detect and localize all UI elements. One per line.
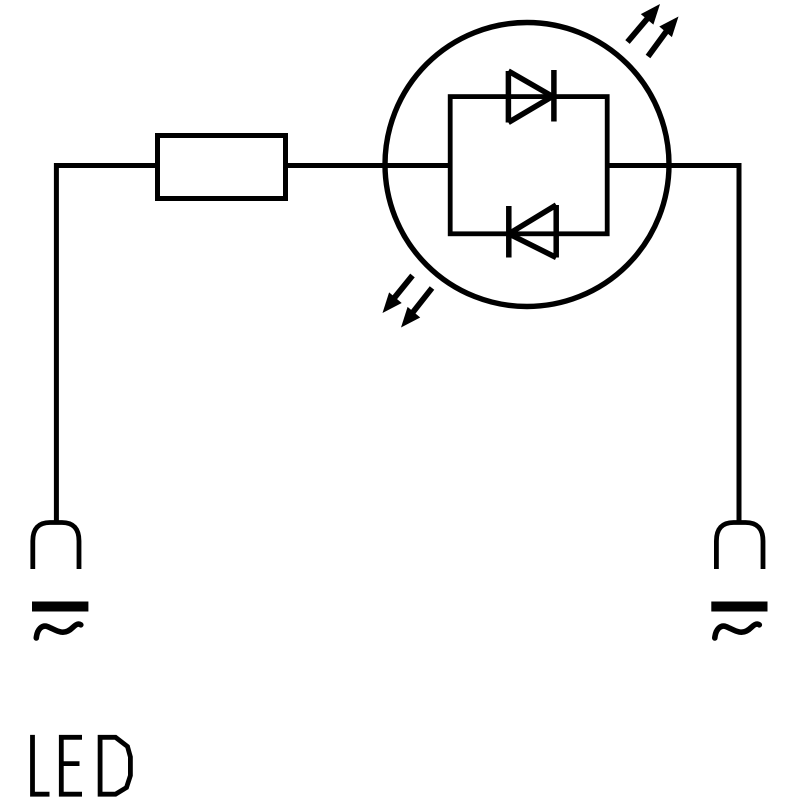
diode D1 cathode bar bbox=[551, 70, 557, 122]
diode pair box bbox=[450, 97, 607, 234]
light arrow 1 shaft (top right) bbox=[628, 16, 651, 43]
light arrow 1 head bbox=[641, 4, 660, 25]
connector socket left bbox=[33, 523, 79, 570]
wire resistor to LED body bbox=[286, 163, 451, 168]
AC bar left bbox=[32, 602, 88, 612]
AC bar right bbox=[711, 602, 767, 612]
light arrow 4 head bbox=[401, 307, 420, 328]
AC tilde left bbox=[36, 624, 81, 638]
connector socket right bbox=[716, 523, 763, 570]
diode D2 (bottom, anode right) triangle bbox=[509, 205, 556, 258]
light arrow 2 shaft (top right) bbox=[648, 29, 669, 57]
light arrow 3 head bbox=[383, 292, 402, 313]
LED body circle bbox=[385, 23, 669, 307]
label LED : letter D bbox=[100, 735, 130, 797]
light arrow 2 head bbox=[659, 17, 678, 38]
label LED : letter L bbox=[33, 735, 50, 794]
AC tilde right bbox=[715, 624, 760, 638]
light arrow 4 shaft (bottom left) bbox=[412, 288, 433, 314]
diode D2 cathode bar bbox=[506, 206, 512, 258]
wire LED to right vertical drop bbox=[607, 166, 739, 521]
label LED : letter E bbox=[61, 737, 82, 794]
light arrow 3 shaft (bottom left) bbox=[393, 276, 413, 300]
diode D1 (top, anode left) triangle bbox=[508, 71, 552, 123]
wire left: horizontal run and left vertical drop bbox=[56, 166, 157, 521]
resistor R1 bbox=[158, 136, 286, 199]
